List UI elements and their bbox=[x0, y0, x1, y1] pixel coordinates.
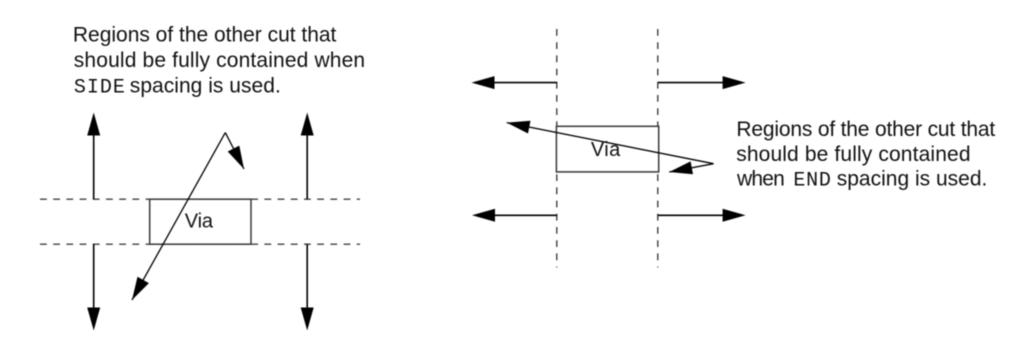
right right dashed line bbox=[657, 29, 659, 268]
right top-right arrow shaft bbox=[658, 82, 724, 84]
right bottom-right arrow head bbox=[723, 209, 746, 222]
left bent arrow short segment bbox=[225, 133, 244, 169]
right bottom-left arrow head bbox=[472, 209, 495, 222]
left down arrow B shaft bbox=[306, 244, 308, 309]
left up arrow A shaft bbox=[93, 134, 95, 199]
svg-text:spacing is used.: spacing is used. bbox=[130, 74, 281, 97]
svg-text:when: when bbox=[736, 168, 785, 191]
left down arrow B head bbox=[301, 308, 314, 331]
left bottom dashed line bbox=[40, 243, 360, 245]
svg-text:spacing is used.: spacing is used. bbox=[837, 168, 988, 191]
right bent arrow long head bbox=[507, 121, 531, 134]
svg-text:should be fully contained when: should be fully contained when bbox=[74, 49, 365, 72]
svg-text:Regions of the other cut that: Regions of the other cut that bbox=[736, 118, 995, 141]
right bottom-left arrow shaft bbox=[494, 214, 557, 216]
left up arrow B head bbox=[301, 113, 314, 136]
left up arrow A head bbox=[87, 113, 100, 136]
right via rectangle bbox=[556, 126, 658, 172]
svg-text:Via: Via bbox=[185, 210, 214, 232]
left down arrow A head bbox=[87, 308, 100, 331]
right bent arrow long segment bbox=[507, 123, 714, 164]
right top-left arrow shaft bbox=[493, 82, 557, 84]
left bent arrow long segment bbox=[132, 133, 225, 300]
right bent arrow short segment bbox=[669, 164, 713, 172]
svg-text:should be fully contained: should be fully contained bbox=[736, 143, 970, 166]
right bottom-right arrow shaft bbox=[658, 214, 724, 216]
left bent arrow short head bbox=[228, 146, 244, 169]
left via rectangle bbox=[150, 199, 251, 244]
right bent arrow short head bbox=[669, 161, 693, 174]
left down arrow A shaft bbox=[93, 244, 95, 309]
left bent arrow long head bbox=[132, 277, 149, 300]
left top dashed line bbox=[40, 198, 360, 200]
svg-text:SIDE: SIDE bbox=[74, 76, 125, 99]
right top-right arrow head bbox=[723, 76, 746, 89]
svg-text:Regions of the other cut that: Regions of the other cut that bbox=[73, 23, 337, 46]
left up arrow B shaft bbox=[306, 134, 308, 199]
right left dashed line bbox=[556, 29, 558, 268]
right top-left arrow head bbox=[472, 76, 495, 89]
svg-text:END: END bbox=[793, 170, 831, 193]
